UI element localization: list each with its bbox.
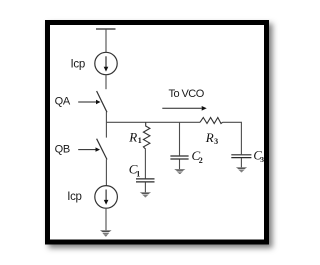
switch QB blade [97, 139, 107, 160]
wire bottom current source to ground [105, 208, 107, 230]
ground (C3) [236, 167, 247, 172]
supply rail bar [96, 28, 116, 30]
svg-text:QB: QB [55, 143, 70, 155]
svg-text:QA: QA [55, 95, 71, 107]
QB control arrow [78, 147, 100, 151]
wire R1 to C1 [144, 149, 146, 178]
label C1 [129, 161, 141, 178]
To VCO arrow [162, 106, 206, 111]
svg-text:Icp: Icp [71, 58, 85, 70]
resistor R1 [143, 122, 150, 149]
capacitor C2 [170, 156, 188, 159]
svg-text:3: 3 [214, 137, 218, 146]
svg-text:Icp: Icp [67, 191, 81, 203]
border frame [48, 23, 267, 243]
wire C2 to ground [179, 160, 181, 170]
svg-text:3: 3 [260, 155, 264, 164]
label C2 [192, 148, 203, 165]
label R1 [128, 129, 141, 145]
wire node to C2 [179, 122, 181, 155]
node wire to R1 C2 R3 [106, 121, 200, 123]
label R3 [205, 130, 218, 146]
wire QB to bottom current source [105, 159, 107, 185]
svg-text:R: R [128, 129, 137, 144]
svg-text:R: R [205, 130, 214, 145]
capacitor C3 [231, 155, 251, 158]
switch QA blade [97, 91, 107, 112]
wire C3 to ground [240, 158, 242, 167]
wire top current source to switch QA [105, 75, 107, 90]
svg-text:1: 1 [138, 136, 142, 145]
current source Icp (top) [95, 52, 117, 74]
ground (C2) [174, 169, 185, 174]
svg-text:1: 1 [136, 169, 140, 178]
ground (C1) [140, 192, 151, 197]
current source Icp (bottom) [95, 186, 118, 209]
wire supply to top current source [105, 29, 107, 52]
capacitor C1 [136, 179, 155, 182]
label C3 [253, 148, 264, 164]
wire R3 to C3 corner [223, 122, 242, 154]
wire C1 to ground [144, 182, 146, 192]
ground (main) [100, 230, 112, 236]
svg-text:2: 2 [199, 156, 203, 165]
wire QA to node [105, 112, 107, 138]
QA control arrow [78, 100, 100, 104]
resistor R3 [200, 118, 223, 124]
svg-text:To VCO: To VCO [169, 88, 205, 100]
